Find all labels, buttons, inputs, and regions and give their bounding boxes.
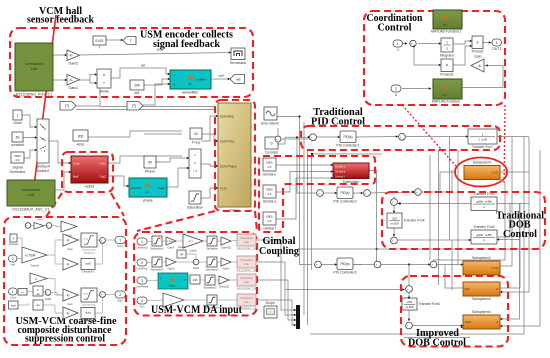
svg-text:-K-: -K- xyxy=(478,64,482,68)
svg-text:DS1103MUX_ADC_C1: DS1103MUX_ADC_C1 xyxy=(13,208,50,212)
svg-text:Saturation2: Saturation2 xyxy=(203,286,217,290)
svg-text:signal feedback: signal feedback xyxy=(153,39,220,50)
svg-text:+: + xyxy=(46,291,48,295)
svg-text:PID(s): PID(s) xyxy=(340,262,349,266)
svg-text:1: 1 xyxy=(397,42,399,46)
svg-text:PID(s): PID(s) xyxy=(340,191,349,195)
svg-text:0000: 0000 xyxy=(266,188,273,192)
svg-text:vellowfilter: vellowfilter xyxy=(182,91,200,95)
svg-text:+: + xyxy=(276,137,278,141)
svg-text:*, 3: *, 3 xyxy=(41,149,46,153)
svg-text:Gimbal f: Gimbal f xyxy=(335,174,345,178)
svg-text:PID Controller2: PID Controller2 xyxy=(333,200,356,204)
svg-text:OUT2: OUT2 xyxy=(492,266,499,270)
svg-text:2: 2 xyxy=(395,87,397,91)
svg-text:Control: Control xyxy=(503,229,537,240)
svg-text:OUT1: OUT1 xyxy=(492,47,502,51)
svg-text:Gain7: Gain7 xyxy=(168,245,175,249)
svg-text:-: - xyxy=(314,137,315,141)
svg-text:+: + xyxy=(194,260,196,264)
svg-text:s+200: s+200 xyxy=(405,305,414,309)
svg-text:s+200: s+200 xyxy=(390,222,399,226)
svg-text:4: 4 xyxy=(141,299,143,303)
svg-text:Product1: Product1 xyxy=(440,73,454,77)
svg-text:Vcm: Vcm xyxy=(220,187,227,191)
svg-text:1/36: 1/36 xyxy=(192,278,198,282)
svg-text:0000: 0000 xyxy=(266,215,273,219)
svg-text:-: - xyxy=(410,288,411,292)
svg-text:×: × xyxy=(103,73,106,78)
svg-text:du/dt: du/dt xyxy=(85,312,91,315)
svg-text:1: 1 xyxy=(496,41,498,45)
svg-text:fcn: fcn xyxy=(188,82,192,86)
svg-text:Amp: Amp xyxy=(77,143,84,147)
svg-text:DS1103DAC_C8: DS1103DAC_C8 xyxy=(237,247,257,251)
svg-text:Transfer Fcn6: Transfer Fcn6 xyxy=(419,302,440,306)
svg-text:du/dt: du/dt xyxy=(85,263,91,266)
svg-text:Gimbal a: Gimbal a xyxy=(263,200,276,204)
svg-text:PID(s): PID(s) xyxy=(343,135,352,139)
svg-text:[vel]: [vel] xyxy=(11,305,16,308)
svg-text:+: + xyxy=(407,324,409,328)
svg-text:Gain: Gain xyxy=(67,303,73,306)
svg-text:0-0: 0-0 xyxy=(268,192,272,196)
svg-text:90: 90 xyxy=(148,161,152,165)
svg-text:-: - xyxy=(368,192,369,196)
svg-text:-: - xyxy=(103,294,104,298)
svg-text:Saturation4: Saturation4 xyxy=(205,306,219,310)
svg-text:g(2)h .s+Bh: g(2)h .s+Bh xyxy=(476,200,492,204)
svg-text:constant: constant xyxy=(11,143,25,147)
svg-text:0000: 0000 xyxy=(266,161,273,165)
svg-text:U: U xyxy=(395,93,398,97)
svg-text:DS1103DAC_C8: DS1103DAC_C8 xyxy=(237,307,257,311)
svg-text:OutM: OutM xyxy=(465,320,471,324)
svg-text:phase: phase xyxy=(143,199,153,203)
svg-text:vel.cmd: vel.cmd xyxy=(131,186,141,190)
svg-text:velf: velf xyxy=(219,74,224,78)
svg-text:Link: Link xyxy=(31,67,38,71)
svg-text:Cmd: Cmd xyxy=(73,162,80,166)
svg-text:Sel0: Sel0 xyxy=(465,287,471,291)
svg-text:Hall: Hall xyxy=(73,175,79,179)
svg-text:UsmAmp: UsmAmp xyxy=(137,246,148,250)
svg-text:Gain6: Gain6 xyxy=(168,266,175,270)
svg-text:Discrete-Time: Discrete-Time xyxy=(82,249,96,252)
svg-text:sat: sat xyxy=(36,293,39,296)
svg-text:Gain/al: Gain/al xyxy=(30,264,39,268)
svg-text:2: 2 xyxy=(141,261,143,265)
svg-text:Saturation: Saturation xyxy=(187,206,203,210)
svg-text:Subsystem3: Subsystem3 xyxy=(472,297,491,301)
svg-text:Gimbal f: Gimbal f xyxy=(263,227,275,231)
svg-text:200: 200 xyxy=(392,216,397,220)
svg-text:Out2: Out2 xyxy=(117,299,123,303)
svg-text:v elfilter: v elfilter xyxy=(196,78,206,82)
svg-text:Phase: Phase xyxy=(145,170,155,174)
svg-text:200: 200 xyxy=(78,135,84,139)
svg-text:Derivative: Derivative xyxy=(83,320,94,323)
svg-text:Unresolved: Unresolved xyxy=(240,259,253,262)
svg-text:DS1103DAC_C8: DS1103DAC_C8 xyxy=(237,287,257,291)
svg-text:Link: Link xyxy=(28,193,35,197)
svg-text:Gimbal e: Gimbal e xyxy=(263,173,276,177)
svg-text:+: + xyxy=(416,190,418,194)
svg-text:+: + xyxy=(100,239,102,243)
svg-text:-: - xyxy=(395,240,396,244)
svg-text:Scope: Scope xyxy=(265,301,275,305)
svg-text:1: 1 xyxy=(141,240,143,244)
svg-text:-K-: -K- xyxy=(69,54,73,58)
svg-text:2: 2 xyxy=(12,257,14,261)
svg-text:0-0: 0-0 xyxy=(268,219,272,223)
svg-text:0-0: 0-0 xyxy=(16,158,20,162)
svg-text:Unresolved: Unresolved xyxy=(22,188,40,192)
svg-text:DS1103ENC_POS_C1: DS1103ENC_POS_C1 xyxy=(16,93,53,97)
svg-text:1: 1 xyxy=(12,290,14,294)
svg-text:+: + xyxy=(26,224,28,228)
svg-text:60: 60 xyxy=(16,136,20,140)
svg-text:Gain: Gain xyxy=(171,307,177,311)
svg-text:Driver: Driver xyxy=(229,209,240,213)
svg-text:UsmFreq: UsmFreq xyxy=(137,267,148,271)
svg-text:Unresolved: Unresolved xyxy=(240,277,253,280)
svg-text:-: - xyxy=(403,136,404,140)
svg-text:Terminator: Terminator xyxy=(230,61,248,65)
svg-text:1: 1 xyxy=(119,239,121,243)
svg-text:Subsystem: Subsystem xyxy=(343,180,360,184)
svg-text:[T]: [T] xyxy=(132,104,136,108)
svg-text:DOB Control: DOB Control xyxy=(408,337,466,349)
svg-text:1: 1 xyxy=(446,41,448,45)
svg-text:PID Controller1: PID Controller1 xyxy=(336,144,359,148)
svg-text:close: close xyxy=(13,121,21,125)
svg-text:+: + xyxy=(365,191,367,195)
svg-text:-: - xyxy=(197,261,198,265)
svg-text:Transfer Fcn4: Transfer Fcn4 xyxy=(404,219,425,223)
svg-text:-: - xyxy=(29,225,30,229)
svg-text:-K-: -K- xyxy=(66,293,70,297)
svg-text:Gimbal a: Gimbal a xyxy=(335,169,346,173)
svg-text:vel: vel xyxy=(236,77,241,81)
svg-text:Subsystem7: Subsystem7 xyxy=(473,161,492,165)
svg-text:PID Control: PID Control xyxy=(311,116,365,128)
svg-text:Freq: Freq xyxy=(192,141,199,145)
svg-text:Unresolved: Unresolved xyxy=(25,62,43,66)
svg-text:J: J xyxy=(397,48,399,52)
svg-text:-K-: -K- xyxy=(66,238,70,242)
svg-text:phase: phase xyxy=(157,186,165,190)
svg-text:+: + xyxy=(392,200,394,204)
svg-text:-: - xyxy=(378,264,379,268)
svg-text:Control: Control xyxy=(378,22,412,34)
svg-text:Vcm: Vcm xyxy=(139,305,144,309)
svg-text:-0.7504: -0.7504 xyxy=(25,253,36,257)
svg-text:+: + xyxy=(407,287,409,291)
svg-text:ue1: ue1 xyxy=(134,91,140,95)
svg-text:×: × xyxy=(476,40,479,45)
svg-text:Gain4(2): Gain4(2) xyxy=(221,245,231,249)
svg-text:Gain1: Gain1 xyxy=(68,86,78,90)
svg-text:Discrete-Time: Discrete-Time xyxy=(82,304,96,307)
svg-text:200: 200 xyxy=(407,300,412,304)
svg-text:1/200: 1/200 xyxy=(167,241,173,243)
svg-text:fcn: fcn xyxy=(443,23,447,27)
svg-text:-: - xyxy=(419,191,420,195)
svg-text:Generator: Generator xyxy=(9,170,26,174)
svg-text:0-0: 0-0 xyxy=(268,165,272,169)
svg-text:T: T xyxy=(98,46,100,50)
svg-text:2: 2 xyxy=(119,293,121,297)
svg-text:Switch2: Switch2 xyxy=(37,169,50,173)
svg-text:Gain: Gain xyxy=(474,55,481,59)
svg-text:UsmPhase: UsmPhase xyxy=(136,285,149,289)
svg-text:-K-: -K- xyxy=(66,262,70,266)
svg-text:Derivative2: Derivative2 xyxy=(82,271,95,274)
svg-text:suppression control: suppression control xyxy=(25,334,105,345)
svg-text:-: - xyxy=(103,240,104,244)
svg-text:Signal: Signal xyxy=(13,166,23,170)
svg-text:-K-: -K- xyxy=(69,78,73,82)
svg-text:Gain: Gain xyxy=(67,248,73,251)
svg-text:Coupling: Coupling xyxy=(259,245,299,257)
svg-text:+: + xyxy=(100,293,102,297)
svg-text:Integrator: Integrator xyxy=(440,54,455,58)
svg-text:Saturation: Saturation xyxy=(206,247,218,251)
svg-text:×: × xyxy=(446,63,449,68)
svg-text:200: 200 xyxy=(134,84,140,88)
svg-text:PID Controller3: PID Controller3 xyxy=(333,271,356,275)
svg-text:-: - xyxy=(321,192,322,196)
svg-text:J .s+B: J .s+B xyxy=(478,138,486,142)
svg-text:+: + xyxy=(431,263,433,267)
svg-text:+: + xyxy=(318,191,320,195)
svg-text:T: T xyxy=(129,39,131,43)
svg-text:+: + xyxy=(47,224,49,228)
svg-text:-: - xyxy=(49,292,50,296)
svg-text:44: 44 xyxy=(180,253,184,257)
svg-text:+: + xyxy=(375,263,377,267)
svg-text:SUM3: SUM3 xyxy=(45,299,52,301)
svg-text:Out1: Out1 xyxy=(99,162,106,166)
svg-text:vel: vel xyxy=(141,64,146,68)
svg-text:-: - xyxy=(434,264,435,268)
svg-text:MATLAB Function: MATLAB Function xyxy=(432,100,460,104)
svg-text:-: - xyxy=(410,325,411,329)
svg-text:Usm Amp: Usm Amp xyxy=(220,115,234,119)
svg-text:-K-: -K- xyxy=(66,311,70,315)
svg-text:Divide: Divide xyxy=(99,90,109,94)
svg-text:Gain1: Gain1 xyxy=(223,266,230,270)
svg-text:Multiport: Multiport xyxy=(36,165,50,169)
svg-text:-1: -1 xyxy=(34,277,37,281)
svg-text:T: T xyxy=(174,83,176,87)
svg-text:44: 44 xyxy=(194,132,198,136)
svg-text:Saturation3: Saturation3 xyxy=(150,268,164,272)
svg-text:Sine Disturb: Sine Disturb xyxy=(261,122,279,126)
svg-text:Out2: Out2 xyxy=(99,175,106,179)
svg-text:Constant: Constant xyxy=(265,151,278,155)
svg-text:+: + xyxy=(400,135,402,139)
svg-text:[T]: [T] xyxy=(65,104,69,108)
svg-text:Hall: Hall xyxy=(10,263,15,267)
svg-text:Sub2: Sub2 xyxy=(193,266,200,270)
svg-text:Unresolved: Unresolved xyxy=(240,297,253,300)
svg-text:Product: Product xyxy=(472,50,484,54)
svg-text:Cmd: Cmd xyxy=(10,296,16,300)
svg-text:Subsystem2: Subsystem2 xyxy=(472,256,491,260)
svg-text:*, 3: *, 3 xyxy=(193,169,198,173)
svg-text:velpid: velpid xyxy=(85,185,94,189)
svg-text:Gain2: Gain2 xyxy=(68,62,78,66)
svg-text:-: - xyxy=(50,225,51,229)
svg-text:+: + xyxy=(316,263,318,267)
svg-text:0: 0 xyxy=(271,142,273,146)
svg-text:Subsystem4: Subsystem4 xyxy=(472,310,491,314)
svg-text:OUT1: OUT1 xyxy=(492,171,499,175)
svg-text:Integrator3: Integrator3 xyxy=(84,251,95,254)
svg-text:Gimbal e: Gimbal e xyxy=(335,164,346,168)
svg-text:Unresolved: Unresolved xyxy=(240,237,253,240)
svg-text:3: 3 xyxy=(141,279,143,283)
svg-text:-: - xyxy=(279,138,280,142)
svg-text:1: 1 xyxy=(17,114,19,118)
svg-text:Transfer Fcn3: Transfer Fcn3 xyxy=(474,225,495,229)
svg-text:Transfer Fcn1: Transfer Fcn1 xyxy=(472,145,493,149)
svg-text:0000: 0000 xyxy=(14,154,21,158)
svg-text:Out1: Out1 xyxy=(117,244,123,248)
svg-text:-: - xyxy=(395,201,396,205)
svg-text:MATLAB Function1: MATLAB Function1 xyxy=(431,30,461,34)
svg-text:Saturation5: Saturation5 xyxy=(150,247,164,251)
svg-text:Gain2(2): Gain2(2) xyxy=(219,284,229,288)
svg-text:fcn: fcn xyxy=(443,93,447,97)
svg-text:Transfer Fcn2: Transfer Fcn2 xyxy=(474,192,495,196)
svg-text:g(2)h .s+Bh: g(2)h .s+Bh xyxy=(476,233,492,237)
svg-text:Usm Freq: Usm Freq xyxy=(220,140,234,144)
svg-text:+: + xyxy=(311,135,313,139)
svg-text:Constant: Constant xyxy=(9,243,19,246)
svg-text:Phase: Phase xyxy=(169,285,176,288)
svg-text:Saturation1: Saturation1 xyxy=(205,268,219,272)
svg-text:DS1103DAC_C8: DS1103DAC_C8 xyxy=(237,269,257,273)
svg-text:Gain5: Gain5 xyxy=(190,248,197,252)
svg-text:Freq1: Freq1 xyxy=(178,245,185,249)
svg-text:Gain2: Gain2 xyxy=(37,219,44,221)
svg-text:-: - xyxy=(319,264,320,268)
svg-text:+: + xyxy=(411,42,413,46)
svg-text:0.001: 0.001 xyxy=(96,39,104,43)
svg-text:Usm Phase: Usm Phase xyxy=(220,165,237,169)
svg-text:+: + xyxy=(392,239,394,243)
svg-text:sensor feedback: sensor feedback xyxy=(27,15,94,26)
